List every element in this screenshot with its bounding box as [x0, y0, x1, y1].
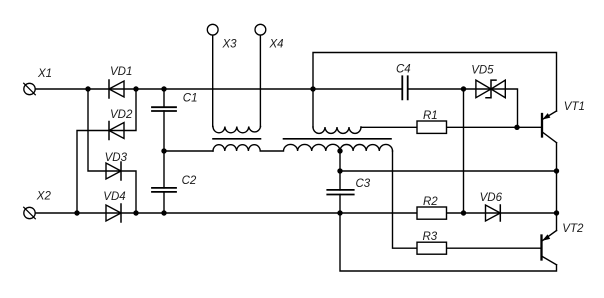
junction node X1 rail / top rail [310, 86, 315, 91]
svg-text:C2: C2 [182, 175, 197, 187]
wire top supply rail [313, 53, 557, 128]
junction node on X1 rail at VD1 cathode [133, 86, 138, 91]
capacitor C2 [152, 151, 176, 213]
transformer secondary winding (bottom, with center tap) [213, 144, 393, 151]
junction node R2 / VD6 [461, 210, 466, 215]
resistor R2 [417, 207, 447, 219]
wire VT1 collector to VD6 node and VT2 emitter [556, 143, 558, 231]
wire transformer secondary right end down to R3 [393, 151, 418, 248]
bidirectional zener VD5 [476, 80, 505, 98]
svg-text:R1: R1 [423, 110, 438, 122]
junction node secondary center tap [337, 148, 342, 153]
resistor R1 [417, 121, 447, 133]
svg-text:C1: C1 [183, 93, 198, 105]
junction node VD6 out / VT2 emitter [554, 210, 559, 215]
wire X1 rail [35, 89, 517, 127]
svg-text:X4: X4 [269, 39, 284, 51]
transformer T2 core [284, 138, 392, 140]
junction node center tap line left [337, 168, 342, 173]
wire R1 output to VT1 base [447, 126, 541, 128]
terminal X4 [255, 24, 266, 126]
svg-text:VD2: VD2 [110, 109, 133, 121]
capacitor C3 [327, 190, 353, 195]
svg-text:X3: X3 [222, 39, 238, 51]
junction node VT1 collector line [554, 168, 559, 173]
diode VD4 [106, 204, 121, 222]
svg-text:R3: R3 [423, 231, 438, 243]
terminal X1 [24, 83, 36, 95]
terminal X3 [207, 24, 218, 126]
junction node VD5 out / VT1 base [514, 125, 519, 130]
diode VD2 [109, 122, 124, 140]
svg-text:VD6: VD6 [480, 192, 503, 204]
junction node C1/C2 tap [161, 148, 166, 153]
svg-text:VD4: VD4 [103, 191, 125, 203]
svg-text:VD3: VD3 [105, 152, 128, 164]
wire center-tap line node to VT1 collector column [340, 151, 557, 213]
svg-text:C3: C3 [356, 178, 371, 190]
junction node C2 bottom [161, 210, 166, 215]
diode VD6 [486, 205, 501, 221]
wire VD3 branch verticals [88, 89, 136, 213]
junction node on X1 rail at VD1 anode [85, 86, 90, 91]
svg-text:VT2: VT2 [562, 223, 584, 235]
wire secondary rail from C1/C2 tap to transformer [164, 150, 213, 152]
junction node X2 rail at VD2 [74, 210, 79, 215]
wire X2 rail [35, 212, 556, 214]
wire winding2 output to R1 [361, 126, 417, 128]
terminal X2 [24, 207, 36, 219]
diode VD1 [109, 80, 124, 98]
capacitor C4 [402, 76, 407, 99]
wire bottom return to VT2 collector [340, 213, 557, 271]
svg-text:R2: R2 [423, 196, 438, 208]
junction node C4 / VD5 input [461, 86, 466, 91]
svg-text:VD5: VD5 [471, 65, 494, 77]
transistor VT1 [542, 111, 557, 143]
svg-text:X2: X2 [36, 191, 52, 203]
svg-text:VD1: VD1 [110, 66, 132, 78]
junction node C1 top [161, 86, 166, 91]
diode VD3 [106, 162, 121, 180]
svg-text:X1: X1 [37, 68, 52, 80]
resistor R3 [417, 242, 447, 254]
transformer T1 core [213, 138, 261, 140]
transformer T1 primary winding (X3-X4) [213, 127, 261, 133]
svg-text:C4: C4 [396, 64, 411, 76]
wire VD2 branch verticals [77, 89, 136, 213]
wire R3 output to VT2 base [447, 247, 541, 249]
junction node C3 bottom on X2 rail [337, 210, 342, 215]
capacitor C1 [152, 89, 176, 151]
svg-text:VT1: VT1 [564, 101, 585, 113]
transistor VT2 [542, 231, 557, 265]
wire VD5 to R2 node vertical [463, 89, 465, 213]
junction node X2 rail at VD3 [133, 210, 138, 215]
transformer T2 primary winding [313, 127, 361, 133]
